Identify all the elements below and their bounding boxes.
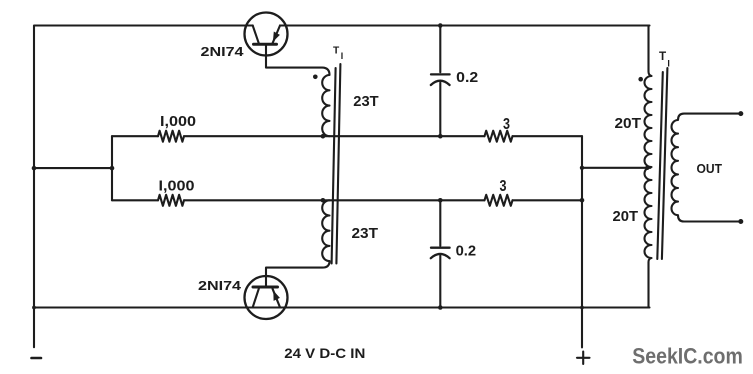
svg-text:3: 3 (500, 178, 507, 195)
svg-text:20T: 20T (613, 209, 639, 225)
svg-text:0.2: 0.2 (456, 242, 477, 259)
svg-text:I: I (667, 59, 670, 69)
svg-text:SeekIC.com: SeekIC.com (632, 343, 743, 368)
svg-text:I,000: I,000 (160, 114, 196, 130)
svg-text:I,000: I,000 (159, 179, 195, 195)
svg-text:0.2: 0.2 (456, 69, 478, 86)
svg-text:T: T (333, 46, 340, 57)
svg-text:24 V D-C IN: 24 V D-C IN (284, 346, 365, 361)
svg-text:2NI74: 2NI74 (201, 45, 244, 59)
svg-text:2NI74: 2NI74 (198, 279, 241, 293)
svg-text:3: 3 (503, 116, 510, 133)
svg-text:23T: 23T (352, 226, 379, 242)
svg-text:T: T (659, 50, 667, 63)
svg-text:23T: 23T (353, 94, 378, 110)
svg-text:I: I (341, 51, 343, 61)
svg-text:OUT: OUT (697, 161, 723, 176)
svg-text:20T: 20T (615, 116, 642, 132)
